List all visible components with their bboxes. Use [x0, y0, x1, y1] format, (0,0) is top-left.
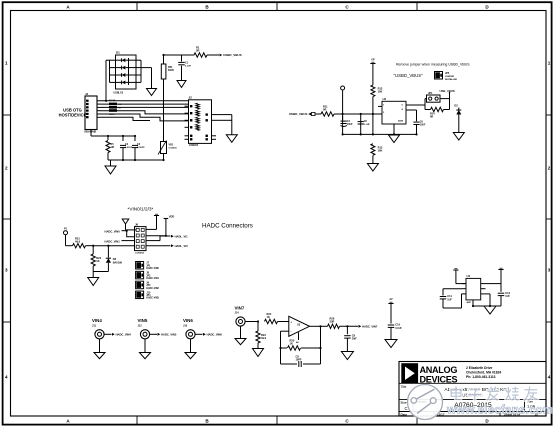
svg-text:HADL_VI1: HADL_VI1	[175, 234, 188, 238]
wire header right row3	[146, 236, 170, 241]
ground D2	[453, 133, 464, 141]
svg-text:HADC-VIN3: HADC-VIN3	[146, 297, 159, 300]
connector VIN5 SMA	[138, 318, 158, 339]
capacitor C9 output	[344, 326, 357, 351]
svg-text:HADC_VIN4: HADC_VIN4	[116, 332, 132, 336]
power flag U4 right	[486, 268, 504, 292]
svg-text:49.9: 49.9	[261, 336, 267, 340]
svg-text:HADC-VIN1: HADC-VIN1	[146, 277, 159, 280]
svg-text:1: 1	[548, 61, 551, 66]
jumper legend J10	[136, 291, 160, 300]
jumper legend J7	[136, 262, 160, 271]
svg-text:0R: 0R	[323, 108, 326, 112]
connector J6 header 2x4	[135, 222, 147, 254]
power flag VDD	[154, 214, 159, 229]
svg-text:0R: 0R	[430, 115, 433, 118]
IC U4	[462, 274, 486, 304]
resistor R25 feedback	[288, 339, 301, 351]
svg-text:1NF: 1NF	[352, 337, 357, 341]
svg-text:*VIN0/1/2/3*: *VIN0/1/2/3*	[128, 206, 154, 211]
connector VIN4 SMA	[92, 318, 112, 339]
connector VIN6 SMA	[183, 318, 203, 339]
ground clamp	[88, 278, 99, 286]
date row	[401, 412, 539, 416]
svg-text:HADC-VIN2: HADC-VIN2	[146, 287, 159, 290]
svg-text:Chelmsford, MA 01824: Chelmsford, MA 01824	[466, 371, 501, 375]
net HADC_VIN6 flag	[203, 333, 206, 336]
svg-text:U2: U2	[383, 97, 387, 101]
power flag VBUS pullup	[370, 58, 375, 85]
svg-text:2: 2	[5, 166, 8, 171]
svg-text:J14: J14	[235, 312, 240, 315]
capacitor C10	[388, 323, 403, 340]
svg-text:JP1: JP1	[146, 265, 151, 267]
net HADC_VIN0 flag	[105, 229, 135, 236]
title block frame	[399, 362, 546, 417]
jumper legend J8	[136, 271, 160, 280]
svg-text:USBD_VBUS: USBD_VBUS	[289, 112, 308, 116]
net USBD_VBUS input flag	[289, 112, 321, 116]
svg-text:CON2X4: CON2X4	[189, 144, 199, 147]
wire USB D+	[100, 106, 189, 108]
net HADC_VIN4 flag	[112, 333, 115, 336]
svg-text:J1: J1	[85, 92, 89, 96]
wire header row4 long	[93, 245, 170, 247]
svg-text:10UF: 10UF	[420, 125, 426, 127]
wire FB1 to VBUS rail	[164, 55, 195, 142]
svg-text:4: 4	[548, 375, 551, 380]
svg-text:Size: Size	[401, 400, 407, 404]
svg-text:Date: Date	[401, 412, 408, 416]
resistor R4 series ID	[109, 109, 117, 116]
svg-text:−: −	[290, 330, 292, 334]
wire shield	[100, 117, 150, 120]
wire J2 to ground	[216, 115, 232, 135]
connector VIN7 SMA	[235, 306, 259, 327]
resistor R21 series	[73, 237, 94, 248]
wire TVS left rail	[106, 60, 110, 101]
svg-text:J6: J6	[135, 222, 139, 226]
ground C1	[177, 81, 186, 88]
svg-text:HADC_VIN0: HADC_VIN0	[105, 229, 121, 233]
svg-text:JP5: JP5	[445, 72, 450, 75]
svg-text:1M: 1M	[111, 146, 114, 149]
svg-text:0.1UF: 0.1UF	[364, 124, 371, 126]
svg-text:CG0603: CG0603	[169, 148, 178, 150]
jumper legend J9	[136, 281, 160, 290]
svg-text:J10: J10	[146, 291, 151, 294]
svg-text:Title: Title	[401, 385, 407, 389]
wire USB GND	[100, 114, 189, 121]
wire TVS right to ground	[141, 60, 152, 88]
ground C9	[341, 352, 353, 360]
svg-text:10K: 10K	[378, 90, 383, 94]
diode D3 clamp	[106, 246, 123, 272]
svg-text:0.01UF: 0.01UF	[125, 147, 133, 149]
svg-text:VP: VP	[371, 58, 375, 61]
ADI logotype	[420, 365, 458, 384]
svg-text:DEVICES: DEVICES	[420, 374, 458, 384]
svg-text:4: 4	[5, 375, 8, 380]
svg-text:R2 0R: R2 0R	[109, 100, 116, 102]
svg-text:600R: 600R	[168, 69, 174, 72]
terminal E1	[341, 86, 345, 114]
resistor R22 shunt	[91, 246, 102, 272]
svg-text:VR1: VR1	[169, 144, 174, 147]
label USB OTG HOST/DEVICE	[59, 107, 87, 117]
svg-text:3: 3	[5, 268, 8, 273]
capacitor C1	[178, 55, 191, 81]
svg-text:C: C	[405, 406, 408, 411]
ground VIN4	[94, 339, 105, 359]
svg-text:VIN4: VIN4	[92, 318, 102, 323]
ferrite bead FB1	[161, 64, 174, 79]
svg-text:10PF: 10PF	[296, 359, 302, 362]
svg-text:J12: J12	[138, 325, 143, 328]
op-amp U2 comparator box	[378, 97, 425, 134]
capacitor C6	[406, 110, 426, 134]
svg-text:elecfans: elecfans	[418, 401, 428, 404]
svg-text:VDD: VDD	[169, 215, 175, 219]
svg-text:USB_VBUS: USB_VBUS	[440, 89, 455, 93]
svg-text:1: 1	[5, 61, 8, 66]
svg-text:1K: 1K	[290, 342, 293, 346]
wire bottom rail shield	[108, 148, 164, 166]
net USB_VBUS flag top	[440, 89, 455, 94]
svg-text:JP3: JP3	[146, 285, 151, 287]
wire VBUS J1 pin1	[100, 100, 189, 102]
svg-text:33R: 33R	[330, 320, 335, 324]
net HADC_VIN7 flag	[359, 325, 362, 328]
capacitor C11	[440, 289, 462, 308]
svg-text:JUMPER: JUMPER	[445, 76, 455, 78]
net HADC_VIN1 flag	[105, 239, 135, 243]
svg-text:HADC_VIN7: HADC_VIN7	[362, 324, 378, 328]
power flag U4 left	[453, 269, 466, 284]
svg-text:HADL_VI0: HADL_VI0	[175, 244, 188, 248]
svg-text:1K: 1K	[96, 259, 99, 263]
svg-text:3: 3	[548, 268, 551, 273]
resistor R14	[425, 107, 450, 118]
ground J2	[226, 135, 237, 143]
ground shield	[105, 166, 116, 174]
capacitor C8 feedback	[296, 355, 302, 368]
ground U4	[484, 306, 496, 314]
svg-text:2 Elizabeth Drive: 2 Elizabeth Drive	[466, 366, 493, 370]
ground header small	[122, 219, 136, 230]
ADI logo	[401, 363, 418, 383]
wire VBUS node rail	[334, 114, 417, 134]
capacitor C3 shield	[132, 143, 145, 149]
rev cell	[527, 399, 536, 408]
svg-text:4700PF: 4700PF	[137, 146, 145, 149]
resistor R12 vertical	[371, 85, 383, 134]
resistor R24 series VIN7	[265, 312, 287, 324]
title row text	[401, 385, 508, 398]
svg-text:VIN7: VIN7	[235, 306, 245, 311]
svg-text:JP4: JP4	[146, 294, 151, 297]
resistor R2 series D-	[109, 100, 122, 106]
diode D2	[454, 104, 461, 133]
svg-text:CON2X4: CON2X4	[135, 252, 145, 255]
wire clamp bottom rail	[93, 272, 108, 278]
capacitor C5	[358, 120, 371, 126]
svg-text:J2: J2	[189, 96, 193, 100]
svg-text:USBLC6: USBLC6	[114, 92, 124, 95]
svg-text:J13: J13	[183, 325, 188, 328]
capacitor C4 polarized	[341, 116, 354, 126]
svg-text:HADC Connectors: HADC Connectors	[202, 223, 253, 230]
wire jumper loop	[425, 94, 450, 110]
net HADC_VIN5 flag	[158, 333, 161, 336]
net USBD_VBUS flag	[220, 53, 242, 57]
ground C10	[385, 340, 397, 348]
resistor R23 shunt VIN7	[256, 322, 267, 349]
capacitor C2 shield	[120, 143, 133, 149]
svg-text:U4: U4	[467, 274, 471, 278]
svg-text:0R: 0R	[196, 49, 199, 53]
jumper JP1	[425, 92, 450, 102]
svg-text:Ph: 1-800-461-3113: Ph: 1-800-461-3113	[466, 375, 496, 379]
svg-text:VIN5: VIN5	[138, 318, 148, 323]
svg-text:1UF: 1UF	[447, 298, 452, 301]
size cell	[401, 400, 408, 410]
resistor R11	[321, 105, 334, 117]
svg-text:AV: AV	[389, 298, 393, 301]
svg-text:JP2: JP2	[146, 275, 151, 277]
svg-text:INSTALLED: INSTALLED	[445, 78, 458, 81]
svg-text:+: +	[290, 320, 292, 324]
resistor R5 shield	[106, 141, 114, 153]
ground R23	[253, 349, 264, 357]
svg-text:10K: 10K	[378, 149, 383, 153]
ground VIN7	[235, 326, 246, 345]
terminal P1 input	[64, 228, 73, 246]
svg-text:HADC_VIN6: HADC_VIN6	[207, 332, 223, 336]
svg-text:J11: J11	[92, 325, 97, 328]
svg-text:HADC_VIN5: HADC_VIN5	[161, 332, 177, 336]
svg-text:HADC_VIN1: HADC_VIN1	[105, 239, 121, 243]
ground TVS	[147, 89, 157, 96]
svg-text:2: 2	[548, 166, 551, 171]
varistor VR1	[158, 141, 177, 155]
watermark stamp circle	[408, 385, 443, 420]
wire feedback loop	[281, 326, 321, 364]
op-amp U3	[281, 316, 310, 344]
resistor R26 output	[321, 317, 359, 329]
wire USB D-	[100, 103, 189, 105]
svg-text:HOST/DEVICE: HOST/DEVICE	[59, 113, 87, 118]
jumper legend JP5	[435, 72, 458, 82]
svg-text:BAV199: BAV199	[113, 261, 123, 264]
ground VIN6	[185, 339, 196, 359]
watermark big text	[451, 387, 537, 400]
wire header right row2	[146, 215, 174, 236]
ground U2	[389, 135, 400, 143]
svg-text:ADM: ADM	[398, 120, 403, 123]
svg-text:ADP: ADP	[467, 301, 472, 304]
svg-text:D1: D1	[116, 51, 120, 55]
svg-text:49.9: 49.9	[75, 240, 81, 244]
connector J1 USB OTG	[84, 92, 100, 134]
net HADL_VI1 flag right	[171, 235, 174, 238]
wire USB ID	[100, 111, 189, 114]
TVS diode array D1	[110, 51, 142, 95]
wire header right row1	[146, 228, 157, 230]
svg-text:0.1UF: 0.1UF	[395, 327, 402, 330]
ground R13	[367, 164, 378, 172]
svg-text:USB-MINIB: USB-MINIB	[84, 131, 96, 133]
svg-text:10UF: 10UF	[347, 123, 353, 126]
resistor R3 series D+	[109, 106, 122, 110]
svg-text:0.1UF: 0.1UF	[185, 66, 192, 68]
wire U4 bottom	[473, 294, 501, 306]
svg-text:HADC-VIN0: HADC-VIN0	[146, 267, 159, 270]
ADI address	[466, 366, 501, 379]
ground VIN5	[140, 339, 151, 359]
svg-text:VIN6: VIN6	[183, 318, 193, 323]
svg-text:D2: D2	[454, 104, 458, 108]
resistor R1	[194, 46, 219, 58]
svg-text:USBD_VBUS: USBD_VBUS	[223, 53, 242, 57]
svg-text:www.elecfans.com: www.elecfans.com	[446, 403, 554, 416]
svg-text:Remove jumper when measuring U: Remove jumper when measuring USBD_VBUS	[396, 63, 470, 67]
capacitor C12	[498, 291, 511, 306]
svg-text:JP1: JP1	[428, 92, 433, 95]
svg-text:DM: DM	[119, 104, 122, 106]
connector J2	[185, 96, 217, 148]
resistor R13 to ground	[371, 144, 383, 164]
net HADL_VI0 flag right	[171, 244, 174, 247]
svg-text:1UF: 1UF	[505, 295, 510, 298]
power flag AVDD	[388, 298, 393, 323]
svg-text:"USBD_VBUS": "USBD_VBUS"	[394, 73, 424, 78]
svg-text:1K: 1K	[267, 315, 270, 319]
wire J1 shield to filters	[91, 130, 135, 142]
